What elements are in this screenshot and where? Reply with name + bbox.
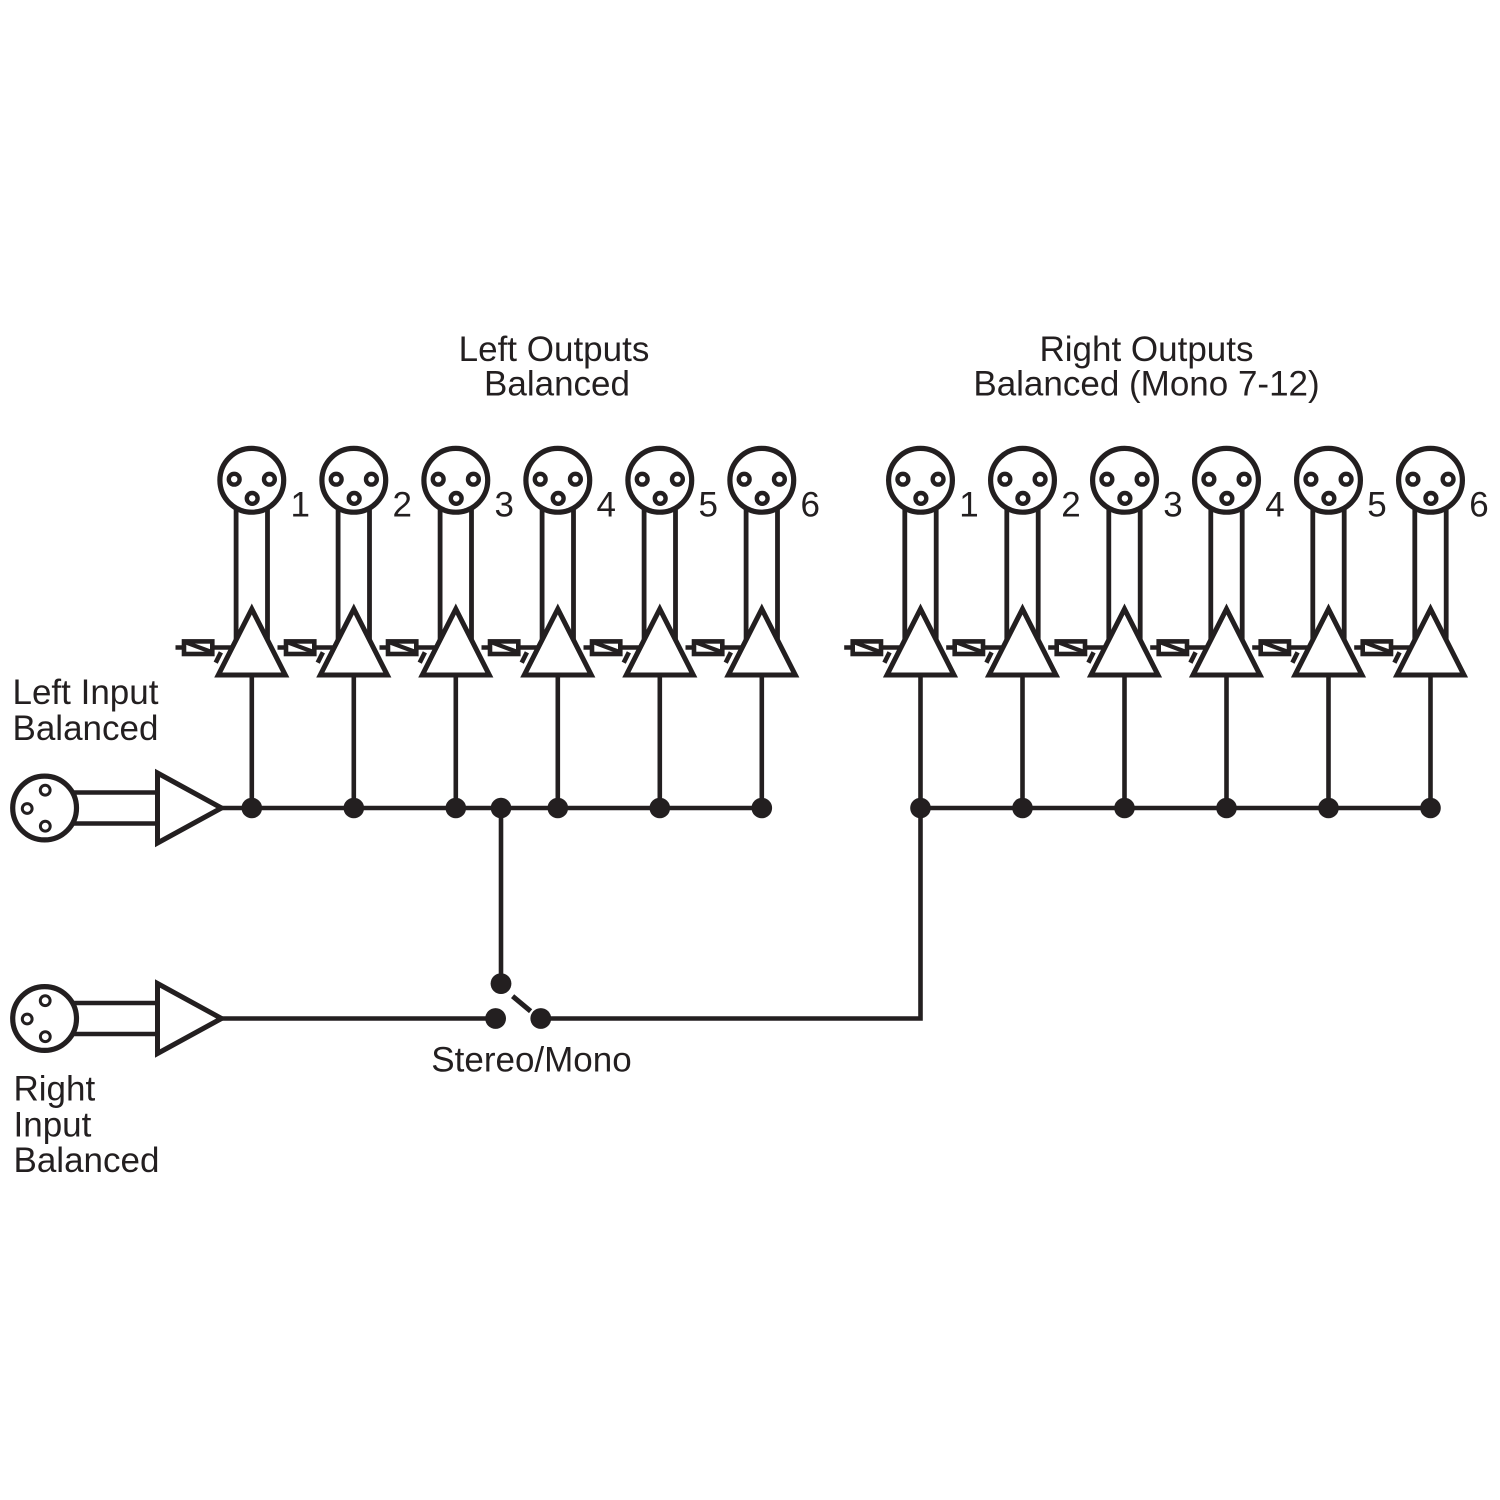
op-amp buffer L4 (524, 609, 591, 675)
junction: bus node R4 (1216, 798, 1237, 819)
XLR output connector L1 (220, 448, 284, 512)
XLR output connector L3 (424, 448, 488, 512)
net: right output bus (921, 806, 1431, 811)
wire pair: XLR L6 to amp L6 (746, 500, 777, 646)
svg-text:Left Input: Left Input (13, 673, 159, 712)
junction: bus node L1 (242, 798, 263, 819)
svg-text:Balanced: Balanced (14, 1141, 160, 1180)
wire pair: XLR L5 to amp L5 (644, 500, 675, 646)
op-amp buffer L2 (320, 609, 387, 675)
junction: bus node L3 (446, 798, 467, 819)
trimmer RR3 (1048, 641, 1112, 662)
switch S1 lever (513, 996, 531, 1011)
wire: amp L3 output to bus (453, 673, 458, 808)
wire pair: XLR R6 to amp R6 (1415, 500, 1446, 646)
label: Right Outputs Balanced (Mono 7-12) (973, 330, 1319, 404)
svg-text:2: 2 (1061, 486, 1080, 525)
label: Left Outputs Balanced (459, 330, 650, 404)
svg-text:Right: Right (14, 1070, 96, 1109)
XLR left input connector (13, 776, 77, 840)
label: Right Input Balanced (14, 1070, 160, 1181)
switch S1 mono contact (530, 1008, 551, 1029)
junction: bus node R5 (1318, 798, 1339, 819)
op-amp buffer R5 (1295, 609, 1362, 675)
wire: amp R5 output to bus (1326, 673, 1331, 808)
svg-text:Right Outputs: Right Outputs (1040, 330, 1254, 369)
op-amp buffer L3 (422, 609, 489, 675)
svg-text:Balanced: Balanced (484, 365, 630, 404)
svg-text:Balanced: Balanced (13, 709, 159, 748)
wire pair: right input XLR to amp U-R (70, 1003, 162, 1034)
svg-text:Left Outputs: Left Outputs (459, 330, 650, 369)
XLR output connector L4 (526, 448, 590, 512)
wire: amp L6 output to bus (759, 673, 764, 808)
op-amp buffer R4 (1193, 609, 1260, 675)
trimmer RR4 (1150, 641, 1214, 662)
wire: amp L2 output to bus (351, 673, 356, 808)
trimmer RL6 (686, 641, 750, 662)
XLR output connector R2 (991, 448, 1055, 512)
svg-text:1: 1 (959, 486, 978, 525)
junction: left bus / switch feed (491, 798, 512, 819)
op-amp buffer R2 (989, 609, 1056, 675)
XLR output connector R6 (1399, 448, 1463, 512)
op-amp buffer R6 (1397, 609, 1464, 675)
XLR output connector L5 (628, 448, 692, 512)
XLR output connector L2 (322, 448, 386, 512)
wire: amp U-R to switch stereo contact (222, 1016, 496, 1021)
wire pair: XLR L2 to amp L2 (338, 500, 369, 646)
XLR right input connector (13, 987, 77, 1051)
wire: amp L1 output to bus (250, 673, 255, 808)
XLR output connector R4 (1195, 448, 1259, 512)
svg-text:5: 5 (1367, 486, 1386, 525)
wire pair: XLR R5 to amp R5 (1313, 500, 1344, 646)
wire: amp R2 output to bus (1020, 673, 1025, 808)
wire pair: XLR R3 to amp R3 (1109, 500, 1140, 646)
switch S1 stereo contact (485, 1008, 506, 1029)
wire pair: XLR R1 to amp R1 (905, 500, 936, 646)
wire: amp R1 output to bus (918, 673, 923, 808)
wire pair: XLR L4 to amp L4 (542, 500, 573, 646)
svg-text:Input: Input (14, 1106, 92, 1145)
svg-text:5: 5 (699, 486, 718, 525)
svg-text:3: 3 (495, 486, 514, 525)
op-amp buffer L5 (626, 609, 693, 675)
junction: bus node R1 (910, 798, 931, 819)
wire pair: XLR R4 to amp R4 (1211, 500, 1242, 646)
junction: bus node L6 (752, 798, 773, 819)
junction: bus node L5 (650, 798, 671, 819)
svg-text:4: 4 (597, 486, 616, 525)
XLR output connector L6 (730, 448, 794, 512)
wire pair: XLR R2 to amp R2 (1007, 500, 1038, 646)
XLR output connector R5 (1297, 448, 1361, 512)
trimmer RR5 (1252, 641, 1316, 662)
wire: amp R3 output to bus (1122, 673, 1127, 808)
XLR output connector R3 (1093, 448, 1157, 512)
wire: amp R6 output to bus (1428, 673, 1433, 808)
svg-text:3: 3 (1163, 486, 1182, 525)
label: Left Input Balanced (13, 673, 159, 748)
trimmer RL3 (380, 641, 444, 662)
input amp U-L (158, 773, 222, 843)
wire: switch mono contact to right bus (541, 808, 921, 1019)
wire pair: XLR L3 to amp L3 (440, 500, 471, 646)
XLR output connector R1 (889, 448, 953, 512)
wire: amp R4 output to bus (1224, 673, 1229, 808)
op-amp buffer R1 (887, 609, 954, 675)
svg-text:Balanced (Mono 7-12): Balanced (Mono 7-12) (973, 365, 1319, 404)
trimmer RR2 (946, 641, 1010, 662)
junction: bus node R6 (1420, 798, 1441, 819)
svg-text:1: 1 (291, 486, 310, 525)
svg-text:Stereo/Mono: Stereo/Mono (431, 1041, 631, 1080)
trimmer RL2 (278, 641, 342, 662)
trimmer RL5 (584, 641, 648, 662)
wire pair: XLR L1 to amp L1 (236, 500, 267, 646)
input amp U-R (158, 984, 222, 1054)
wire: amp L5 output to bus (657, 673, 662, 808)
svg-text:6: 6 (801, 486, 820, 525)
svg-text:2: 2 (393, 486, 412, 525)
svg-text:4: 4 (1265, 486, 1284, 525)
op-amp buffer R3 (1091, 609, 1158, 675)
wire pair: left input XLR to amp U-L (70, 793, 162, 824)
junction: bus node L4 (548, 798, 569, 819)
switch S1 common contact (491, 973, 512, 994)
trimmer RR6 (1354, 641, 1418, 662)
junction: bus node R2 (1012, 798, 1033, 819)
trimmer RL1 (176, 641, 240, 662)
trimmer RL4 (482, 641, 546, 662)
wire: left bus to switch common (499, 808, 504, 984)
junction: bus node R3 (1114, 798, 1135, 819)
junction: bus node L2 (344, 798, 365, 819)
svg-text:6: 6 (1469, 486, 1488, 525)
op-amp buffer L1 (218, 609, 285, 675)
net: left output bus (222, 806, 762, 811)
trimmer RR1 (844, 641, 908, 662)
wire: amp L4 output to bus (555, 673, 560, 808)
op-amp buffer L6 (728, 609, 795, 675)
